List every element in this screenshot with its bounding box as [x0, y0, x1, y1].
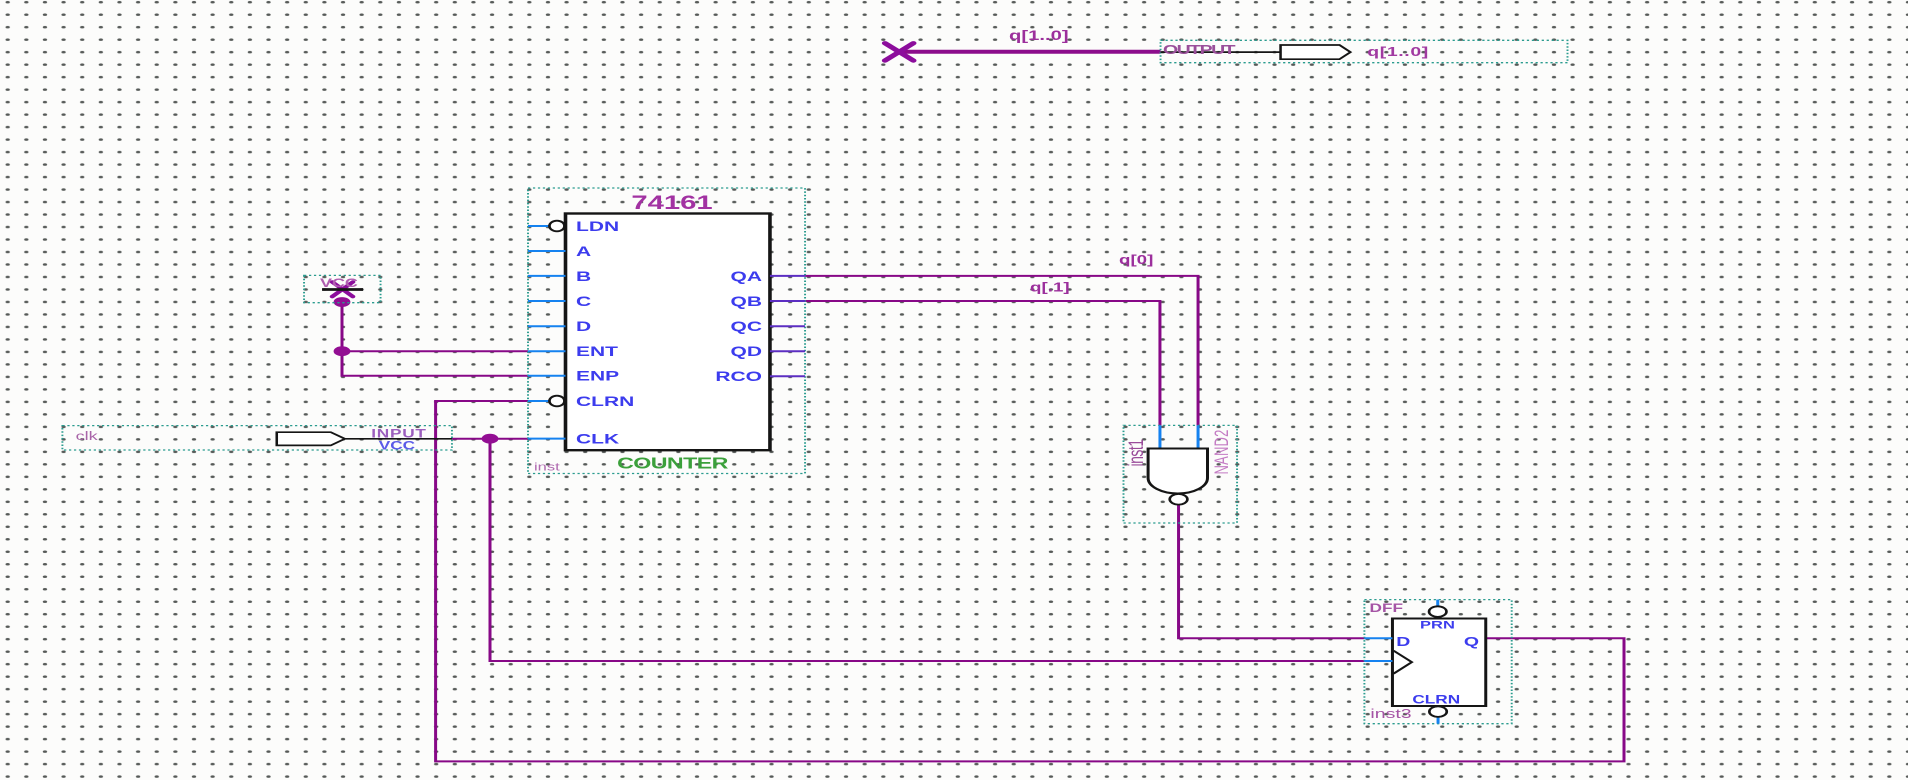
- svg-text:QA: QA: [731, 268, 763, 284]
- svg-text:C: C: [576, 293, 591, 309]
- svg-text:RCO: RCO: [715, 369, 762, 385]
- svg-text:clk: clk: [76, 430, 98, 443]
- svg-text:LDN: LDN: [576, 218, 619, 234]
- svg-text:D: D: [1396, 634, 1410, 649]
- svg-text:COUNTER: COUNTER: [617, 455, 728, 472]
- svg-text:Q: Q: [1464, 634, 1479, 649]
- svg-text:VCC: VCC: [379, 440, 416, 453]
- svg-text:q[0]: q[0]: [1119, 254, 1153, 267]
- svg-text:OUTPUT: OUTPUT: [1163, 42, 1235, 57]
- svg-text:ENT: ENT: [576, 344, 618, 360]
- svg-text:q[1..0]: q[1..0]: [1367, 44, 1429, 59]
- svg-text:q[1..0]: q[1..0]: [1009, 27, 1069, 43]
- svg-text:ENP: ENP: [576, 368, 619, 384]
- svg-text:DFF: DFF: [1370, 603, 1404, 616]
- svg-text:QD: QD: [731, 344, 763, 360]
- svg-text:D: D: [576, 319, 591, 335]
- svg-text:A: A: [576, 243, 591, 259]
- svg-text:74161: 74161: [631, 193, 713, 214]
- svg-text:NAND2: NAND2: [1210, 429, 1232, 474]
- svg-text:QB: QB: [731, 293, 763, 309]
- svg-text:INPUT: INPUT: [371, 428, 426, 441]
- svg-text:CLRN: CLRN: [1412, 694, 1460, 707]
- svg-text:q[.1]: q[.1]: [1030, 281, 1070, 294]
- svg-text:inst: inst: [534, 460, 560, 473]
- svg-text:inst3: inst3: [1370, 706, 1411, 721]
- svg-text:VCC: VCC: [320, 277, 358, 290]
- svg-text:inst1: inst1: [1124, 439, 1148, 467]
- svg-text:CLK: CLK: [576, 431, 619, 447]
- svg-text:QC: QC: [731, 319, 763, 335]
- svg-text:CLRN: CLRN: [576, 393, 634, 409]
- svg-text:B: B: [576, 268, 591, 284]
- svg-text:PRN: PRN: [1420, 618, 1455, 631]
